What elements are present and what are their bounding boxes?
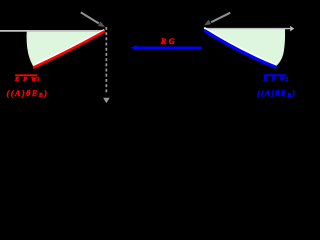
- svg-text:2: 2: [284, 77, 288, 83]
- gray arrow into left apex: [81, 12, 99, 23]
- right sector (green wedge): [204, 28, 285, 67]
- svg-text:EPW: EPW: [262, 76, 285, 83]
- white line above right blue radius: [204, 28, 276, 65]
- label EPW1 (red): [15, 74, 37, 76]
- left horizontal radius line: [0, 30, 105, 32]
- blue middle arrow line: [133, 47, 202, 50]
- left sector (green wedge): [27, 30, 105, 68]
- left arrowhead of blue middle line: [131, 45, 137, 50]
- dashed vertical line below left apex: [105, 27, 107, 95]
- blue radius line (EPW2): [204, 30, 276, 67]
- down arrowhead of dashed line: [103, 98, 110, 103]
- svg-text:EPW: EPW: [14, 76, 37, 83]
- red radius line (left, EPW1): [33, 31, 105, 67]
- svg-text:1: 1: [37, 77, 40, 83]
- white line under left wedge: [35, 30, 104, 65]
- right horizontal radius line with right arrow: [204, 28, 291, 30]
- gray arrow into right apex: [211, 13, 230, 23]
- label EPW2 (blue): [264, 74, 286, 76]
